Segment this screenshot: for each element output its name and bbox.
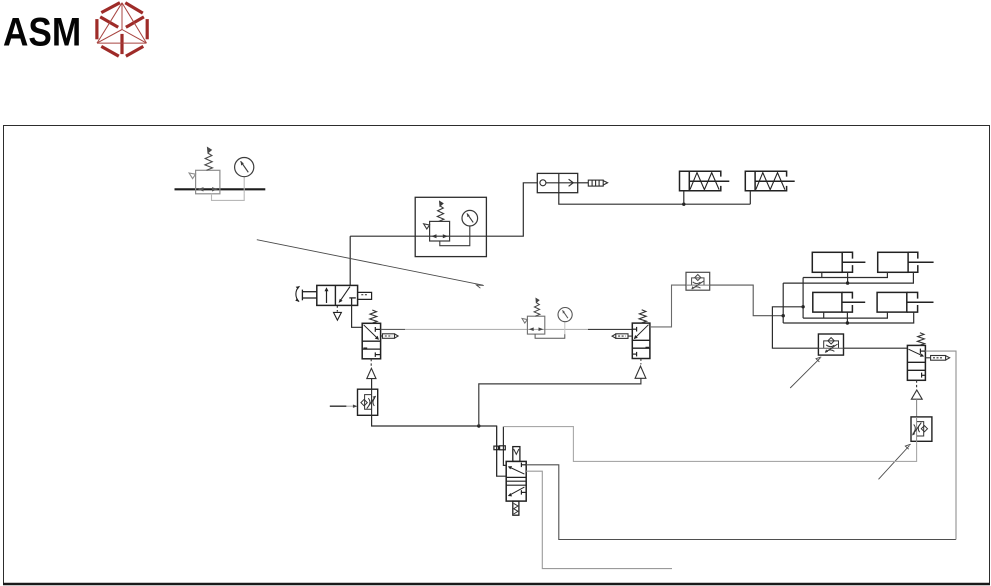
valve V3 exhaust dashed stem: [916, 380, 918, 388]
wire gray from B top to FC3 (long path): [503, 427, 916, 462]
diagram border frame: [4, 126, 990, 584]
regulator R2 internal arrows: [529, 327, 543, 331]
regulator R3 internal arrows: [431, 234, 448, 238]
valve PV2 spring: [639, 310, 646, 323]
flow control FC3 inner line: [916, 417, 918, 441]
regulator R3 body square: [430, 221, 450, 241]
flow control FC3 throttle arrow: [913, 423, 922, 435]
connector square P2: [500, 446, 506, 450]
wire left A into V4 (black): [496, 426, 498, 476]
regulator R0 thick flow line: [175, 188, 266, 190]
valve PV2 body: [632, 323, 650, 358]
cylinder C3 (bottom-left): [813, 292, 865, 312]
connector square P1: [494, 446, 499, 450]
wire filter bottom port drop: [559, 193, 751, 205]
valve PV2 blocked T top-left: [632, 327, 636, 332]
regulator R0 internal arrows: [198, 187, 219, 191]
junction under cylinder CS1: [682, 203, 685, 206]
wire V-link cap buses: [802, 278, 804, 319]
wire V3 output side (gray riser): [925, 351, 956, 539]
flow control FC3 throttle arcs: [914, 424, 920, 432]
svg-text:ASM: ASM: [3, 9, 81, 54]
wire V3 triangle to flow control FC3: [916, 399, 918, 417]
check valve CV1 inner bracket: [692, 278, 704, 285]
gauge G3: [462, 210, 478, 226]
gauge G2 needle: [563, 310, 568, 318]
regulator R3 spring: [437, 201, 444, 221]
valve PV1 blocked T top-right: [375, 327, 380, 332]
flow control FC1 main line: [371, 389, 373, 415]
wire bus C (bottom cap ports): [803, 312, 887, 318]
filter unit body: [537, 173, 577, 192]
check valve CV1 throttle arcs: [693, 282, 701, 289]
gauge G3 needle: [467, 213, 473, 222]
valve PV1 exhaust dashed stem: [370, 359, 372, 367]
wire CS1 port: [683, 191, 685, 204]
valve V3 body: [907, 345, 925, 380]
junction J1: [477, 424, 480, 427]
flow control FC1 inner bracket: [365, 395, 372, 410]
wire H1 to V3 drop: [772, 307, 818, 348]
annotation arrow A1: [257, 240, 483, 286]
muffler M1: [588, 180, 607, 186]
gauge G0 stem: [243, 177, 245, 194]
wire C1 cap port: [821, 272, 823, 277]
flow control FC3 box: [911, 417, 932, 441]
valve V4 blocked T top-right: [521, 463, 526, 468]
valve PV2 pilot symbol: [612, 334, 628, 339]
wire V1 output to pilot valve PV1: [352, 305, 363, 327]
valve PV1 pilot connector: [381, 335, 383, 337]
junction J5: [801, 305, 804, 308]
wire CS2 port: [749, 191, 751, 204]
wire stub into FC1: [330, 405, 347, 407]
wire PV1 output line to PV2 (through regulator R2): [381, 328, 405, 330]
regulator R0 body square: [196, 170, 220, 194]
valve PV2 middle dash: [646, 346, 650, 348]
regulator R3 flow line: [415, 235, 486, 237]
valve PV2 dividers: [632, 339, 650, 341]
regulator R0 relief arrowhead: [189, 173, 196, 179]
regulator R0 spring: [205, 148, 213, 171]
valve PV2 pilot connector: [628, 335, 632, 337]
flow control FC3 inner bracket: [917, 422, 924, 436]
flow control FC1 throttle arcs: [368, 398, 374, 406]
wire PV1 triangle to flow control FC1: [371, 379, 373, 390]
flow control FC2 box: [818, 334, 843, 355]
junction J4: [846, 321, 849, 324]
valve V3 pilot connector: [925, 357, 930, 359]
valve PV1 blocked T bottom-right: [375, 352, 380, 357]
gauge G2 stem: [564, 322, 566, 334]
valve V1 body: [317, 285, 358, 305]
wire supply horizontal to boxed regulator: [350, 235, 415, 237]
annotation arrow A3: [879, 446, 910, 480]
gauge G3 stem: [469, 226, 471, 241]
wire left B into V4: [503, 427, 506, 466]
flow control FC2 throttle arcs: [826, 345, 834, 352]
flow control FC1 throttle arrow: [367, 396, 376, 408]
valve PV1 supply triangle: [367, 368, 376, 378]
valve V1 left box arrow: [326, 289, 328, 303]
gauge G0: [235, 158, 254, 177]
valve V4 blocked T bottom-right: [521, 490, 526, 494]
valve V1 blocked port T: [349, 298, 356, 306]
valve PV1 dividers: [362, 340, 380, 342]
wire filter to muffler: [578, 182, 589, 184]
valve V4 top spring cap: [513, 447, 520, 462]
wire bus A (top cap ports): [803, 272, 887, 277]
flow control FC2 diamond: [828, 338, 834, 344]
valve V4 bottom spring cap: [513, 501, 519, 515]
filter unit circle: [540, 180, 546, 186]
valve V3 dividers: [907, 361, 925, 363]
wire C3 cap port: [823, 312, 825, 318]
flow control FC1 check diamond: [361, 399, 367, 405]
regulator R2 spring: [534, 298, 540, 316]
wire bus D (bottom rod ports): [783, 312, 914, 323]
wire FC1 down to junction line: [372, 415, 479, 426]
wire V-link rod buses: [782, 283, 784, 323]
valve V3 spring: [917, 333, 924, 346]
filter unit chevron: [569, 179, 574, 186]
valve PV1 spring: [370, 310, 377, 323]
flow control FC2 inner line: [818, 347, 843, 349]
regulator R3 pilot loop: [440, 241, 470, 246]
valve PV2 supply triangle: [635, 366, 646, 378]
check valve CV1 throttle arrow: [692, 281, 704, 289]
wire FC2 to valve V3: [844, 347, 908, 349]
cylinder C1 (top-left): [812, 252, 865, 272]
valve V4 body: [506, 461, 526, 501]
valve V4 top box diagonal: [509, 467, 524, 474]
valve PV1 pilot symbol: [383, 334, 399, 339]
cylinder C2 (top-right): [878, 252, 934, 272]
regulator R2 pilot loop: [535, 334, 565, 338]
border bottom thick: [3, 583, 990, 585]
wire junction J1 to 5/3 valve left port A: [479, 426, 506, 476]
filter unit divider: [558, 173, 560, 192]
logo text ASM: [3, 9, 81, 54]
regulator R2 body square: [527, 316, 544, 334]
valve PV2 exhaust dashed stem: [640, 359, 642, 365]
wire boxed regulator to filter riser: [486, 183, 537, 236]
valve V1 exhaust dashed stem: [336, 305, 338, 311]
junction J2: [782, 314, 785, 317]
check valve CV1 box: [686, 272, 710, 290]
valve V3 pilot symbol: [931, 356, 950, 361]
wire CV1 to cylinder bus: [710, 285, 784, 316]
wire supply drop to manual valve: [349, 236, 351, 285]
flow control FC1 box: [358, 389, 378, 415]
valve V1 exhaust triangle: [334, 312, 342, 320]
valve V3 blocked T bottom-right: [922, 373, 926, 378]
valve V4 bottom box diagonal: [509, 487, 524, 495]
valve V3 blocked T top-right: [920, 349, 925, 354]
regulator R2 relief arrowhead: [522, 319, 527, 324]
flow control FC3 diamond: [921, 426, 927, 432]
valve V1 detent tab: [358, 292, 372, 299]
valve V1 right box diagonal: [339, 287, 350, 302]
flow control FC2 inner bracket: [824, 341, 839, 348]
valve V1 lever actuator stem: [302, 290, 316, 301]
junction J3: [846, 281, 849, 284]
valve V3 top box diagonal: [909, 349, 923, 356]
cylinder C4 (bottom-right): [877, 292, 933, 312]
valve PV1 body: [362, 323, 380, 359]
wire C3 rod port: [846, 312, 848, 323]
valve PV1 top box diagonal: [364, 325, 379, 339]
valve V3 supply triangle: [911, 390, 922, 399]
wire bus B (top rod ports): [783, 272, 913, 283]
wire V4 right second port (gray dead-end): [526, 471, 672, 568]
valve V4 dividers: [506, 477, 526, 485]
wire junction J1 up and to PV2 triangle: [479, 378, 641, 426]
filter unit flow line: [546, 182, 578, 184]
wire PV2 output up to check valve CV1: [650, 285, 686, 327]
check valve CV1 diamond: [695, 275, 701, 281]
gauge G0 needle: [241, 161, 249, 172]
wire C1 rod port: [847, 272, 849, 283]
gauge G2: [558, 308, 572, 322]
wire V4 right top port to V3 (long bottom path): [526, 465, 956, 540]
logo hexagon icon: [97, 3, 147, 57]
regulator R3 relief arrowhead: [424, 224, 430, 229]
valve PV2 blocked T bottom-left: [632, 352, 636, 357]
annotation arrow A2: [790, 358, 820, 388]
valve V1 divider: [334, 285, 336, 305]
valve PV1 middle dash: [363, 347, 367, 349]
valve PV2 top box diagonal: [635, 325, 649, 339]
valve V1 lever arc: [296, 286, 300, 302]
enclosure box: [415, 197, 486, 256]
regulator R0 pilot loop: [212, 194, 245, 201]
check valve CV1 inner line: [686, 284, 710, 286]
flow control FC2 throttle arrow: [825, 344, 837, 352]
